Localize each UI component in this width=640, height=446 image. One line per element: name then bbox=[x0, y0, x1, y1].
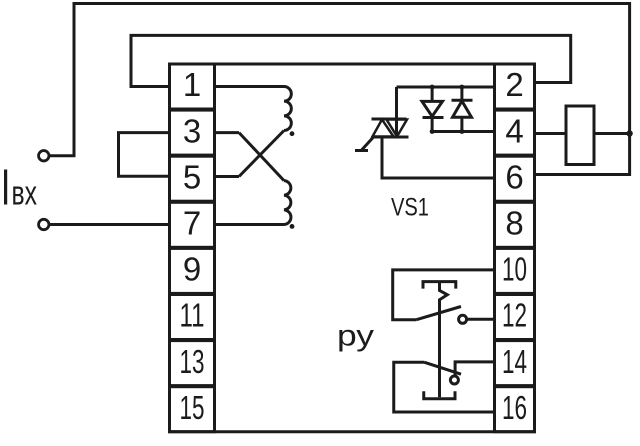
node dot top wire diode D2 bbox=[460, 85, 465, 90]
wire pin 4 right to resistor bbox=[534, 132, 566, 135]
terminal box 9 bbox=[170, 248, 215, 293]
wire pin 3 stub bbox=[213, 131, 239, 134]
terminal box 7 bbox=[170, 202, 215, 247]
polarity dot W2 bbox=[290, 224, 295, 229]
svg-text:3: 3 bbox=[183, 112, 201, 149]
wire coil W2 bottom to pin 7 bbox=[213, 223, 284, 226]
wire pin 14 to contact K2 fixed contact bbox=[455, 362, 496, 376]
svg-text:2: 2 bbox=[505, 66, 523, 103]
jumper wire pins 3-5 left side bbox=[119, 133, 170, 177]
label Ivx bbox=[4, 170, 37, 213]
transformer winding W1 (top coil) bbox=[284, 87, 291, 131]
armature link with spring kink bbox=[440, 282, 448, 398]
contact K1 blade bbox=[416, 307, 461, 320]
polarity dot W1 bbox=[290, 131, 295, 136]
terminal box 10 bbox=[495, 248, 535, 293]
wire resistor to junction bbox=[594, 132, 630, 135]
wire triac top to pin 2 left side bbox=[397, 86, 497, 89]
wire contact K2 left to pin 16 bbox=[394, 362, 496, 412]
terminal box 6 bbox=[495, 156, 535, 201]
svg-text:10: 10 bbox=[502, 251, 527, 288]
armature bracket bottom bbox=[424, 391, 455, 399]
terminal box 3 bbox=[170, 110, 215, 155]
terminal box 2 bbox=[495, 64, 535, 109]
wire diagonal pin 3 to coil W2 top bbox=[239, 133, 284, 181]
terminal box 4 bbox=[495, 110, 535, 155]
svg-text:ру: ру bbox=[337, 320, 374, 353]
svg-text:4: 4 bbox=[505, 112, 523, 149]
svg-text:16: 16 bbox=[502, 389, 527, 426]
node junction dot on right loop at pin4 row bbox=[626, 130, 632, 136]
svg-text:9: 9 bbox=[183, 251, 201, 288]
resistor R1 bbox=[566, 106, 594, 165]
wire input bottom to pin 7 bbox=[50, 223, 170, 226]
wire outer loop: input top terminal to pin 6 right side bbox=[50, 4, 630, 175]
contact K1 fixed contact circle bbox=[459, 315, 467, 323]
device outline top edge bbox=[168, 63, 536, 66]
svg-text:11: 11 bbox=[180, 297, 205, 334]
svg-text:14: 14 bbox=[502, 343, 527, 380]
svg-text:5: 5 bbox=[183, 158, 201, 195]
terminal box 13 bbox=[170, 341, 215, 386]
node dot bottom wire D1 bbox=[430, 129, 435, 134]
terminal box 11 bbox=[170, 295, 215, 340]
svg-text:6: 6 bbox=[505, 158, 523, 195]
wire loop 2: pin 1 left side to pin 2 right side bbox=[131, 35, 571, 86]
svg-text:1: 1 bbox=[183, 66, 201, 103]
terminal box 15 bbox=[170, 387, 215, 432]
wire diagonal coil W1 bottom to pin 5 bbox=[239, 131, 284, 177]
terminal box 1 bbox=[170, 64, 215, 109]
terminal box 12 bbox=[495, 295, 535, 340]
wire contact K1 to pin 12 bbox=[467, 318, 496, 321]
terminal box 16 bbox=[495, 387, 535, 432]
terminal circle input top bbox=[39, 151, 49, 161]
triac VS1 bbox=[355, 87, 409, 151]
terminal box 8 bbox=[495, 202, 535, 247]
svg-text:13: 13 bbox=[180, 343, 205, 380]
wire pin 5 stub bbox=[213, 175, 239, 178]
armature bracket top bbox=[423, 282, 456, 289]
terminal box 14 bbox=[495, 341, 535, 386]
device outline bottom edge bbox=[168, 430, 536, 433]
wire pin 1 to transformer top coil bbox=[213, 85, 284, 88]
wire pin 10 to contact K1 blade bbox=[393, 270, 496, 320]
contact K2 blade bbox=[425, 362, 462, 374]
svg-text:вх: вх bbox=[12, 175, 38, 213]
terminal box 5 bbox=[170, 156, 215, 201]
svg-text:VS1: VS1 bbox=[391, 194, 429, 222]
terminal circle input bottom bbox=[39, 219, 49, 229]
svg-text:12: 12 bbox=[502, 297, 527, 334]
transformer winding W2 (bottom coil) bbox=[284, 181, 291, 225]
svg-text:15: 15 bbox=[180, 389, 205, 426]
wire diode bottoms to pin 4 left side bbox=[432, 130, 496, 133]
svg-text:7: 7 bbox=[183, 205, 201, 242]
svg-text:8: 8 bbox=[505, 205, 523, 242]
wire triac bottom to pin 6 left side bbox=[382, 137, 496, 178]
node dot top wire diode D1 bbox=[430, 85, 435, 90]
diode D1 (cathode down) bbox=[422, 87, 444, 132]
diode D2 (cathode up) bbox=[452, 87, 473, 132]
contact K2 fixed contact circle bbox=[450, 376, 458, 384]
node dot bottom wire D2 bbox=[460, 129, 465, 134]
